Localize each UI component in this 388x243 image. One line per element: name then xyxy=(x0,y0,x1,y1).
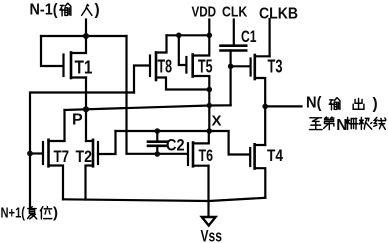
wire P column xyxy=(85,78,87,142)
wire N-1 input drop xyxy=(85,20,87,36)
wire X to T4 gate jog xyxy=(209,131,250,155)
wire left reset column xyxy=(30,93,134,208)
power CLK stem xyxy=(233,20,235,45)
wire output line xyxy=(265,105,301,107)
svg-text:): ) xyxy=(373,96,378,113)
junction node P dot xyxy=(83,106,89,112)
label glyph 复 (reset) xyxy=(28,207,37,219)
transistor T4 xyxy=(250,144,265,198)
svg-text:CLK: CLK xyxy=(222,3,247,20)
svg-text:T4: T4 xyxy=(267,147,284,165)
capacitor C1 xyxy=(221,46,247,67)
wire riser to C1 bottom xyxy=(230,66,232,105)
svg-text:): ) xyxy=(95,2,100,19)
svg-text:T6: T6 xyxy=(199,147,214,165)
ground symbol Vss xyxy=(202,217,216,226)
capacitor C2 xyxy=(148,131,167,154)
power VDD stem xyxy=(208,20,210,36)
wire T8 gate step xyxy=(134,66,150,93)
power CLKB stem xyxy=(269,19,271,56)
wire P left drop xyxy=(63,110,65,141)
svg-text:): ) xyxy=(53,205,58,222)
junction VDD rail dot xyxy=(207,33,213,39)
junction T5 gate tap dot xyxy=(176,33,182,39)
label glyph 至 xyxy=(309,118,322,130)
label glyph 线 xyxy=(374,117,386,129)
transistor T6 xyxy=(188,131,209,166)
wire bottom rail xyxy=(63,198,265,201)
wire T3 gate lead xyxy=(231,65,251,67)
svg-text:T8: T8 xyxy=(158,57,173,77)
label glyph 极 xyxy=(360,117,372,129)
label glyph 输 (output) xyxy=(329,98,340,110)
transistor T8 xyxy=(150,35,209,89)
junction C1 bottom dot xyxy=(228,64,234,70)
svg-text:N+1(: N+1( xyxy=(1,205,26,222)
svg-text:P: P xyxy=(72,112,83,129)
wire top rail right xyxy=(167,34,210,36)
label glyph 出 (output) xyxy=(353,98,364,109)
junction C2 top dot xyxy=(155,128,161,134)
svg-text:N(: N( xyxy=(306,95,322,112)
svg-text:X: X xyxy=(212,113,222,130)
junction node X dot xyxy=(207,128,213,134)
wire T6 source / ground stem xyxy=(207,166,209,217)
wire P to T3-gate line xyxy=(65,105,231,110)
junction input/rail dot xyxy=(83,33,89,39)
svg-text:T2: T2 xyxy=(76,148,93,166)
svg-text:C2: C2 xyxy=(166,136,185,155)
label glyph 第 xyxy=(324,117,334,130)
wire T7 gate lead xyxy=(30,152,43,154)
transistor T2 xyxy=(86,140,99,200)
junction X crossing dot xyxy=(207,103,212,108)
wire T2 gate riser xyxy=(98,131,116,154)
svg-text:T5: T5 xyxy=(198,57,213,77)
junction reset column dot xyxy=(27,151,33,157)
transistor T7 xyxy=(43,140,65,200)
svg-text:Vss: Vss xyxy=(201,228,223,243)
wire mid vertical to T6 gate xyxy=(127,36,188,154)
svg-text:N: N xyxy=(336,117,347,134)
wire T4 drain riser xyxy=(264,106,266,145)
wire T1 gate branch xyxy=(41,36,63,66)
svg-text:VDD: VDD xyxy=(192,3,217,20)
junction C2 bottom dot xyxy=(155,151,161,157)
svg-text:C1: C1 xyxy=(241,27,257,46)
wire X column xyxy=(208,90,210,132)
label glyph 输 (input) xyxy=(60,3,71,16)
node N-1 input label xyxy=(0,0,1,1)
svg-text:T7: T7 xyxy=(54,148,70,166)
svg-text:T3: T3 xyxy=(268,57,283,77)
wire X horizontal line xyxy=(116,130,210,132)
svg-text:CLKB: CLKB xyxy=(259,5,298,22)
label glyph 位 (reset) xyxy=(40,207,51,219)
transistor T3 xyxy=(251,55,270,106)
transistor T1 xyxy=(64,36,87,78)
label glyph 入 (input) xyxy=(82,4,92,15)
transistor T5 xyxy=(186,35,209,89)
svg-text:N-1(: N-1( xyxy=(30,2,59,19)
wire T5 gate tap xyxy=(179,35,186,65)
svg-text:T1: T1 xyxy=(75,58,93,78)
junction T5 source dot xyxy=(207,87,213,93)
junction output node dot xyxy=(262,104,268,110)
wire top rail left xyxy=(41,35,127,37)
label glyph 栅 xyxy=(346,117,358,129)
